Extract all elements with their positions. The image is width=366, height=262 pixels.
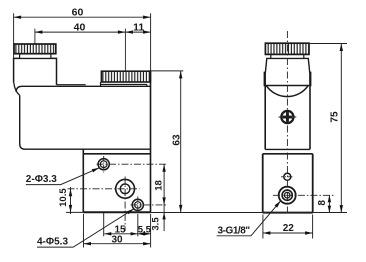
svg-text:2-Φ3.3: 2-Φ3.3 bbox=[26, 174, 57, 185]
svg-text:5.5: 5.5 bbox=[138, 225, 152, 236]
svg-text:8: 8 bbox=[317, 200, 328, 206]
svg-text:40: 40 bbox=[74, 21, 86, 33]
svg-text:3-G1/8": 3-G1/8" bbox=[218, 225, 251, 236]
svg-text:4-Φ5.3: 4-Φ5.3 bbox=[37, 237, 68, 248]
svg-text:60: 60 bbox=[72, 6, 84, 18]
svg-text:3.5: 3.5 bbox=[151, 217, 162, 231]
svg-text:22: 22 bbox=[283, 223, 295, 234]
svg-text:18: 18 bbox=[154, 180, 165, 191]
svg-text:75: 75 bbox=[330, 111, 341, 123]
svg-text:63: 63 bbox=[171, 134, 182, 146]
svg-text:30: 30 bbox=[111, 234, 123, 245]
svg-text:11: 11 bbox=[133, 21, 144, 33]
svg-text:10.5: 10.5 bbox=[58, 188, 69, 207]
